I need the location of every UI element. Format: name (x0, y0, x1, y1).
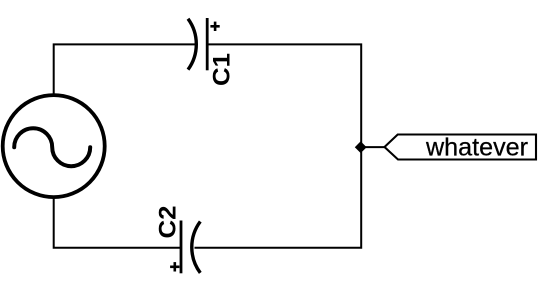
wire: node down to bottom-right corner and to C2 (195, 152, 362, 248)
wire: C2 to source bottom (54, 198, 181, 248)
capacitor C2 (181, 221, 200, 274)
svg-text:whatever: whatever (425, 135, 528, 162)
polarity mark + (C2) (170, 262, 179, 271)
junction node (356, 142, 366, 152)
ac voltage source (3, 95, 105, 197)
capacitor C1 (188, 18, 207, 70)
net label "whatever" flag (385, 135, 537, 162)
wire: C1 to top-right corner down to node (207, 44, 361, 143)
label C1 (209, 53, 236, 86)
label C2 (155, 206, 182, 239)
polarity mark + (C1) (210, 22, 219, 31)
svg-text:C2: C2 (155, 206, 182, 239)
wire: source top to C1 (54, 44, 196, 95)
wire: node to net flag (361, 146, 385, 148)
svg-text:C1: C1 (209, 53, 236, 86)
